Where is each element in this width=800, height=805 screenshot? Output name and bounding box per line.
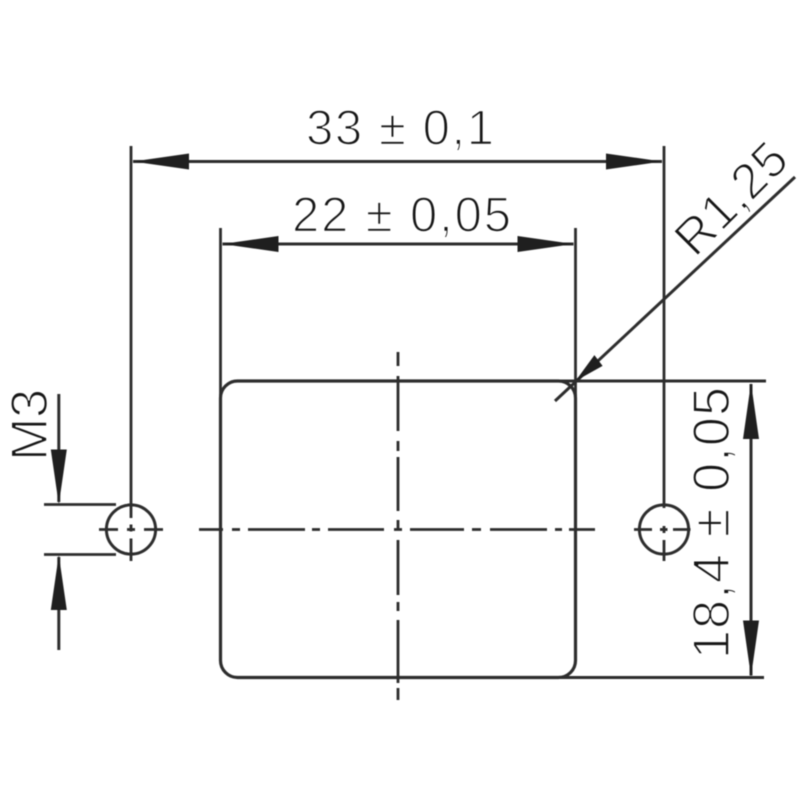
svg-text:22 ± 0,05: 22 ± 0,05 <box>292 189 511 243</box>
svg-text:M3: M3 <box>1 389 59 461</box>
dimension line 33 <box>133 160 662 163</box>
upper tangent extension line of M3 hole <box>44 503 116 506</box>
left hole vertical centerline / extension line of 33-dim <box>130 146 133 518</box>
right hole center dot <box>663 526 666 533</box>
arrowhead lower of M3-dim (pointing up) <box>51 555 67 610</box>
arrowhead left of 33-dim <box>133 154 189 170</box>
right hole vertical centerline dash below center <box>663 540 666 561</box>
M3 dimension line lower part <box>57 557 60 650</box>
svg-text:18,4 ± 0,05: 18,4 ± 0,05 <box>683 387 741 659</box>
svg-text:33 ± 0,1: 33 ± 0,1 <box>306 102 494 156</box>
panel cutout outline (rounded rectangle) <box>221 381 576 678</box>
extension line left of 22-dim <box>219 228 222 410</box>
arrowhead left of 22-dim <box>223 236 279 252</box>
M3 dimension line upper part <box>57 394 60 502</box>
horizontal centerline (dash-dot) through both holes <box>99 528 691 531</box>
left hole center dot <box>130 525 133 532</box>
arrowhead right of 22-dim <box>518 236 574 252</box>
lower tangent extension line of M3 hole <box>44 553 116 556</box>
left mounting hole M3 <box>106 505 155 554</box>
extension line right of 22-dim <box>574 228 577 410</box>
dimension line 18,4 <box>750 384 753 676</box>
extension line bottom of 18,4-dim (from cutout bottom edge) <box>558 676 764 679</box>
arrowhead top of 18,4-dim <box>743 383 759 439</box>
leader line for corner radius R1,25 <box>555 177 795 401</box>
arrowhead upper of M3-dim (pointing down) <box>51 450 67 505</box>
right hole vertical centerline / extension line of 33-dim <box>663 146 666 508</box>
arrowhead right of 33-dim <box>606 154 662 170</box>
arrowhead of radius leader pointing at corner <box>576 355 603 381</box>
extension line top of 18,4-dim (from cutout top edge) <box>558 380 766 383</box>
arrowhead bottom of 18,4-dim <box>743 621 759 677</box>
dimension line 22 <box>223 243 574 246</box>
left hole vertical centerline dash below center <box>130 539 133 562</box>
right mounting hole M3 <box>639 505 688 554</box>
vertical centerline (dash-dot) of cutout <box>397 352 400 700</box>
